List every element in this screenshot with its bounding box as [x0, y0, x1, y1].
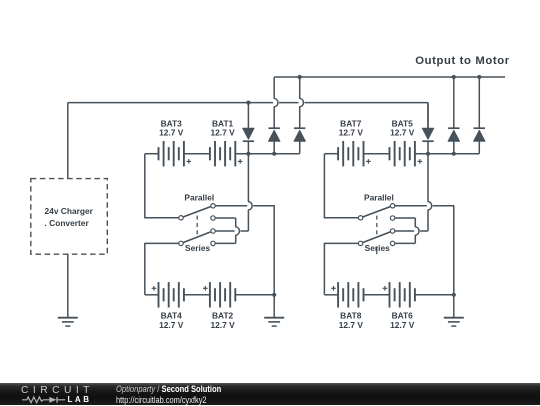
node: output bus junctions [298, 75, 302, 79]
switch group 1 contacts [179, 216, 183, 220]
footer credit line: Optionparty / Second Solution [116, 384, 221, 395]
switch group 1 SW-A lever (set to Parallel) [181, 206, 213, 218]
wire: output bus to motor [274, 76, 505, 78]
battery BAT6 12.7 V (bottom right of group 2) [389, 282, 391, 307]
battery BAT3 12.7 V (top left of group 1) [158, 147, 160, 160]
switch group 1 gang link (dashed) [196, 216, 198, 238]
diode group 2: charger feed diode (points down) [427, 127, 429, 129]
svg-text:12.7 V: 12.7 V [159, 128, 184, 138]
switch group 1 SW-B lever (set to Parallel) [181, 231, 213, 243]
wire: group 1 series throw to battery + [213, 230, 235, 232]
node: charger bus to group1 diode [246, 101, 250, 105]
svg-text:Parallel: Parallel [364, 193, 394, 203]
battery BAT5 12.7 V (top right of group 2) [389, 147, 391, 160]
svg-text:12.7 V: 12.7 V [159, 320, 184, 330]
svg-text:12.7 V: 12.7 V [390, 128, 415, 138]
battery BAT4 12.7 V (bottom left of group 1) [158, 282, 160, 307]
wire: group 2 series throw to battery + [393, 230, 415, 232]
node: group 2 battery + junctions [426, 152, 430, 156]
battery BAT7 12.7 V (top left of group 2) [337, 147, 339, 160]
svg-text:24v Charger: 24v Charger [45, 206, 94, 216]
diode group 1: output diode 2 (points up) [300, 77, 304, 128]
CircuitLab logo wordmark LAB [68, 395, 92, 404]
svg-text:Series: Series [365, 243, 390, 253]
ground group 2 [453, 295, 455, 318]
switch group 2 gang link (dashed) [376, 216, 378, 238]
switch group 2 gang link extra dash [376, 247, 378, 255]
battery BAT2 12.7 V (bottom right of group 1) [209, 282, 211, 307]
svg-text:12.7 V: 12.7 V [210, 320, 235, 330]
svg-text:12.7 V: 12.7 V [210, 128, 235, 138]
svg-text:Parallel: Parallel [184, 193, 214, 203]
svg-text:Output to Motor: Output to Motor [415, 55, 510, 67]
wire: group 2 parallel throw to bottom row [393, 205, 427, 207]
switch group 2 SW-A lever (set to Parallel) [361, 206, 393, 218]
diode group 1: charger feed diode (points down) [247, 103, 249, 129]
switch group 2 SW-B lever (set to Parallel) [361, 231, 393, 243]
ground: charger [67, 254, 69, 318]
wire: group 1 parallel throw to bottom row [213, 205, 247, 207]
wire: group 2 left side to switch commons [324, 154, 360, 218]
diode group 2: output diode 2 (points up) [478, 77, 480, 128]
wire: group 1 left side to switch commons [145, 154, 181, 218]
battery BAT1 12.7 V (top right of group 1) [209, 147, 211, 160]
node: group 1 bottom row junction [272, 293, 276, 297]
switch group 2 contacts [358, 216, 362, 220]
wire: group 1 bottom battery row [145, 294, 159, 296]
node: group 2 bottom row junction [452, 293, 456, 297]
charger box: 24v Charger / Converter (dashed) [31, 179, 108, 255]
wire: group 1 top battery row [145, 153, 159, 155]
battery BAT8 12.7 V (bottom left of group 2) [337, 282, 339, 307]
svg-text:12.7 V: 12.7 V [339, 128, 364, 138]
node: group 1 battery + junctions [246, 152, 250, 156]
wire: group 2 bottom battery row [324, 294, 338, 296]
wire: charger feed bus [68, 102, 273, 104]
ground group 1 [273, 295, 275, 318]
svg-text:Series: Series [185, 243, 210, 253]
wire: charger output riser [67, 103, 69, 179]
diode group 2: output diode 1 (points up) [453, 77, 455, 128]
wire: group 2 throw2-to-throw4 link [393, 217, 416, 219]
wire: group 1 throw2-to-throw4 link [213, 217, 236, 219]
svg-text:. Converter: . Converter [45, 218, 90, 228]
CircuitLab logo wordmark CIRCUIT [21, 385, 94, 396]
footer url [116, 394, 207, 405]
svg-text:12.7 V: 12.7 V [339, 320, 364, 330]
CircuitLab logo schematic doodle (resistor + diode) [21, 394, 67, 406]
svg-text:12.7 V: 12.7 V [390, 320, 415, 330]
diode group 1: output diode 1 (points up) [274, 77, 278, 128]
wire: group 2 top battery row [324, 153, 338, 155]
